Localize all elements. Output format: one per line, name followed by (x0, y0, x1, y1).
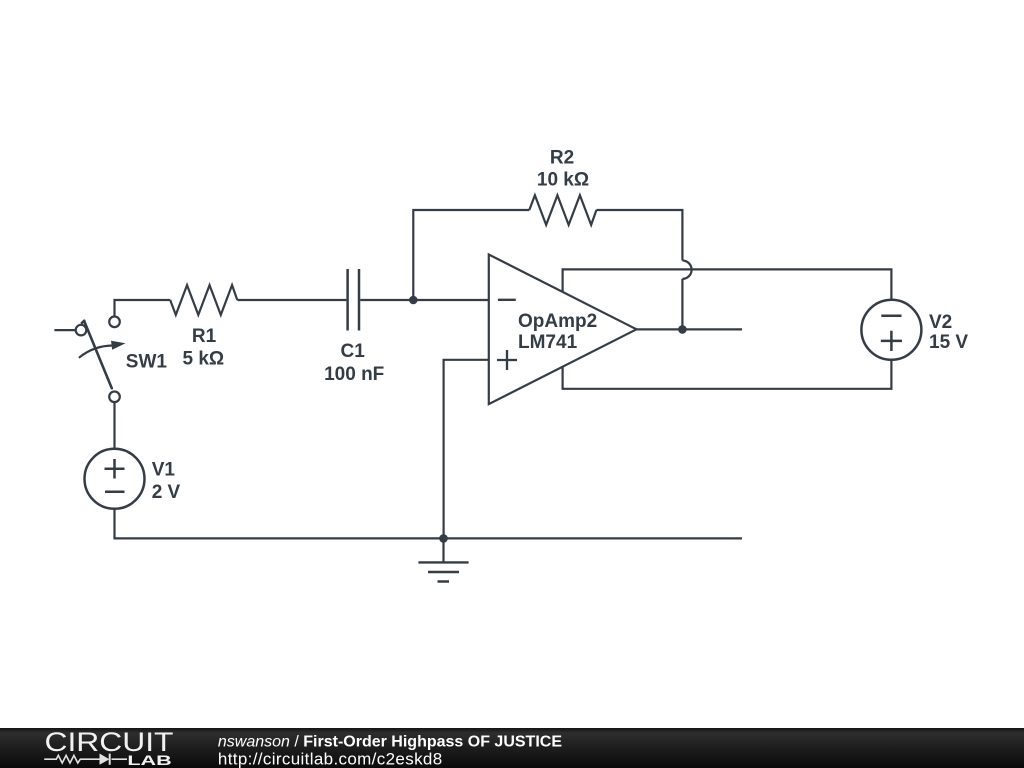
op-amp plus symbol (497, 350, 517, 370)
switch SW1 left stub wire (54, 329, 75, 331)
op-amp minus symbol (498, 299, 516, 301)
svg-text:LM741: LM741 (518, 332, 578, 353)
node B output junction (678, 325, 687, 334)
switch SW1 blade (82, 321, 112, 389)
switch SW1 arrow arc (79, 346, 113, 358)
wire op-amp output (637, 328, 743, 330)
svg-text:LAB: LAB (127, 753, 172, 768)
svg-text:OpAmp2: OpAmp2 (518, 311, 597, 332)
logo diode triangle (100, 754, 110, 765)
switch SW1 arrowhead (111, 341, 126, 350)
wire hop (no-connect crossover) (682, 261, 691, 279)
wire plus input (444, 360, 489, 539)
capacitor C1 (348, 269, 359, 331)
wire bottom power rail to V2 (563, 360, 892, 389)
V2 minus symbol (881, 314, 901, 317)
V1 minus symbol (105, 490, 125, 493)
svg-text:2 V: 2 V (152, 482, 181, 503)
svg-text:SW1: SW1 (126, 351, 168, 372)
switch SW1 top contact (109, 317, 120, 328)
voltage source V1 circle (85, 449, 145, 509)
svg-text:100 nF: 100 nF (324, 364, 384, 385)
svg-text:10 kΩ: 10 kΩ (537, 169, 589, 190)
wire ground stem (442, 538, 444, 562)
resistor R1 (170, 285, 237, 315)
svg-text:V1: V1 (152, 460, 176, 481)
wire V1 top (113, 402, 115, 449)
wire feedback up from node A (413, 210, 529, 300)
V2 plus symbol (881, 331, 902, 351)
svg-text:V2: V2 (929, 312, 952, 333)
wire top power rail to V2 (563, 269, 892, 299)
wire R2 to output node (596, 210, 682, 329)
op-amp U1 triangle (489, 255, 637, 405)
ground (418, 562, 468, 581)
voltage source V2 circle (861, 300, 921, 360)
svg-text:R2: R2 (550, 147, 574, 168)
svg-text:C1: C1 (341, 341, 366, 362)
wire C1 to op-amp minus input (360, 299, 489, 301)
logo resistor-diode line (44, 754, 127, 765)
svg-text:http://circuitlab.com/c2eskd8: http://circuitlab.com/c2eskd8 (218, 750, 443, 768)
svg-text:15 V: 15 V (929, 332, 968, 353)
svg-text:nswanson / First-Order Highpas: nswanson / First-Order Highpass OF JUSTI… (218, 733, 562, 750)
switch SW1 bottom contact (109, 392, 120, 403)
svg-text:5 kΩ: 5 kΩ (182, 349, 224, 370)
switch SW1 left contact (76, 325, 87, 336)
node A junction at C1/R2/op-amp (409, 296, 418, 305)
wire main input (115, 300, 347, 316)
wire bottom rail (115, 509, 743, 539)
resistor R2 (529, 195, 596, 225)
svg-text:R1: R1 (192, 326, 217, 347)
V1 plus symbol (105, 459, 125, 479)
node C ground junction (439, 534, 448, 543)
